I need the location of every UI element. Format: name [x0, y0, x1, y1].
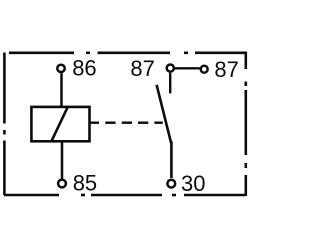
svg-text:85: 85 [73, 171, 97, 196]
relay enclosure dash-dot border: right side [245, 52, 248, 196]
coil diagonal stroke [52, 106, 68, 141]
wire between terminal 87 pivot and second terminal 87 [175, 67, 200, 69]
mechanical link (dashed) from coil to switch arm [89, 121, 163, 123]
svg-text:86: 86 [72, 56, 96, 81]
svg-text:87: 87 [130, 56, 154, 81]
relay enclosure dash-dot border: left side [3, 53, 6, 196]
terminal 85 circle [58, 180, 66, 188]
movable switch arm blade [157, 85, 172, 178]
fixed contact post below terminal 87 [169, 73, 171, 93]
relay enclosure dash-dot border: top side [9, 51, 247, 54]
switch pivot terminal 87 circle [167, 65, 174, 72]
terminal 86 circle [57, 65, 64, 72]
wire from terminal 86 to coil [60, 73, 63, 106]
terminal 30 circle [167, 180, 175, 188]
svg-text:30: 30 [181, 171, 205, 196]
second terminal 87 circle [201, 66, 208, 73]
relay coil K1 body [31, 107, 89, 141]
svg-text:87: 87 [214, 57, 238, 82]
wire from coil to terminal 85 [61, 142, 64, 179]
relay enclosure dash-dot border: bottom side [4, 194, 246, 197]
